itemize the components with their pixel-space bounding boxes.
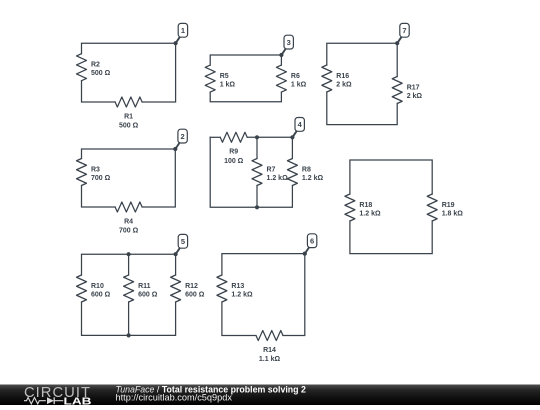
svg-text:R18: R18	[359, 202, 372, 209]
svg-text:600 Ω: 600 Ω	[185, 292, 205, 299]
svg-text:R17: R17	[407, 84, 420, 91]
wire	[256, 186, 258, 208]
wire	[82, 43, 176, 102]
svg-text:1.2 kΩ: 1.2 kΩ	[302, 175, 324, 182]
svg-text:600 Ω: 600 Ω	[91, 292, 111, 299]
wire	[210, 92, 281, 102]
svg-text:R5: R5	[220, 73, 229, 80]
node 1	[174, 23, 188, 45]
wire	[82, 186, 116, 208]
svg-text:1.1 kΩ: 1.1 kΩ	[259, 356, 281, 363]
svg-text:R2: R2	[91, 62, 100, 69]
wire	[327, 92, 397, 125]
svg-text:500 Ω: 500 Ω	[119, 123, 139, 130]
wire	[256, 137, 258, 158]
svg-text:5: 5	[181, 237, 185, 246]
svg-text:3: 3	[287, 38, 291, 47]
CircuitLab logo	[24, 385, 92, 407]
svg-text:R4: R4	[124, 218, 133, 225]
svg-text:R10: R10	[91, 283, 104, 290]
node 5	[174, 234, 188, 256]
node 6	[303, 234, 317, 256]
resistor R14	[256, 331, 283, 364]
svg-text:1.2 kΩ: 1.2 kΩ	[231, 292, 253, 299]
svg-text:600 Ω: 600 Ω	[138, 292, 158, 299]
resistor R11	[124, 275, 158, 302]
resistor R12	[171, 275, 205, 302]
wire	[222, 254, 305, 336]
svg-text:1: 1	[181, 26, 185, 35]
svg-text:1 kΩ: 1 kΩ	[291, 82, 307, 89]
node 4	[290, 118, 304, 140]
resistor R3	[77, 159, 111, 186]
node 7	[395, 23, 409, 45]
wire	[210, 136, 220, 138]
svg-text:2: 2	[181, 132, 185, 141]
wire	[350, 221, 432, 254]
svg-text:R7: R7	[267, 166, 276, 173]
svg-text:R9: R9	[229, 149, 238, 156]
svg-text:R16: R16	[336, 73, 349, 80]
wire	[82, 81, 116, 102]
svg-text:100 Ω: 100 Ω	[224, 158, 244, 165]
resistor R10	[77, 275, 111, 302]
wire	[82, 302, 176, 335]
svg-text:700 Ω: 700 Ω	[91, 175, 111, 182]
svg-text:6: 6	[310, 236, 314, 245]
wire	[210, 55, 281, 65]
svg-text:LAB: LAB	[64, 396, 92, 405]
resistor R4	[115, 202, 142, 235]
svg-text:700 Ω: 700 Ω	[119, 228, 139, 235]
svg-text:1 kΩ: 1 kΩ	[220, 82, 236, 89]
resistor R5	[205, 65, 235, 92]
junction	[255, 205, 259, 209]
junction	[127, 333, 131, 337]
svg-text:R11: R11	[138, 283, 151, 290]
resistor R18	[345, 194, 381, 221]
resistor R8	[287, 159, 323, 186]
resistor R2	[77, 54, 111, 81]
wire	[128, 302, 130, 335]
svg-text:1.2 kΩ: 1.2 kΩ	[359, 211, 381, 218]
svg-text:R8: R8	[302, 166, 311, 173]
svg-text:2 kΩ: 2 kΩ	[407, 93, 423, 100]
wire	[327, 43, 397, 76]
wire	[222, 302, 256, 336]
svg-text:1.2 kΩ: 1.2 kΩ	[267, 175, 289, 182]
wire	[350, 160, 432, 194]
resistor R9	[220, 132, 247, 165]
resistor R1	[115, 97, 142, 130]
wire	[128, 254, 130, 275]
svg-text:R14: R14	[263, 347, 276, 354]
svg-text:R6: R6	[291, 73, 300, 80]
junction	[127, 252, 131, 256]
svg-text:R13: R13	[231, 283, 244, 290]
resistor R19	[427, 194, 463, 221]
resistor R13	[217, 275, 253, 302]
svg-text:500 Ω: 500 Ω	[91, 70, 111, 77]
wire	[247, 137, 292, 158]
junction	[255, 135, 259, 139]
svg-text:1.8 kΩ: 1.8 kΩ	[442, 211, 464, 218]
resistor R17	[392, 77, 422, 104]
wire	[82, 254, 176, 275]
svg-text:R19: R19	[442, 202, 455, 209]
wire	[210, 137, 292, 207]
node 2	[173, 129, 187, 151]
svg-text:R3: R3	[91, 166, 100, 173]
svg-text:R1: R1	[124, 113, 133, 120]
svg-text:7: 7	[402, 26, 406, 35]
svg-text:2 kΩ: 2 kΩ	[336, 82, 352, 89]
wire	[82, 149, 176, 207]
svg-text:R12: R12	[185, 283, 198, 290]
resistor R16	[322, 65, 352, 92]
node 3	[279, 35, 293, 57]
svg-text:http://circuitlab.com/c5q9pdx: http://circuitlab.com/c5q9pdx	[116, 393, 233, 403]
resistor R7	[252, 159, 288, 186]
resistor R6	[276, 65, 306, 92]
